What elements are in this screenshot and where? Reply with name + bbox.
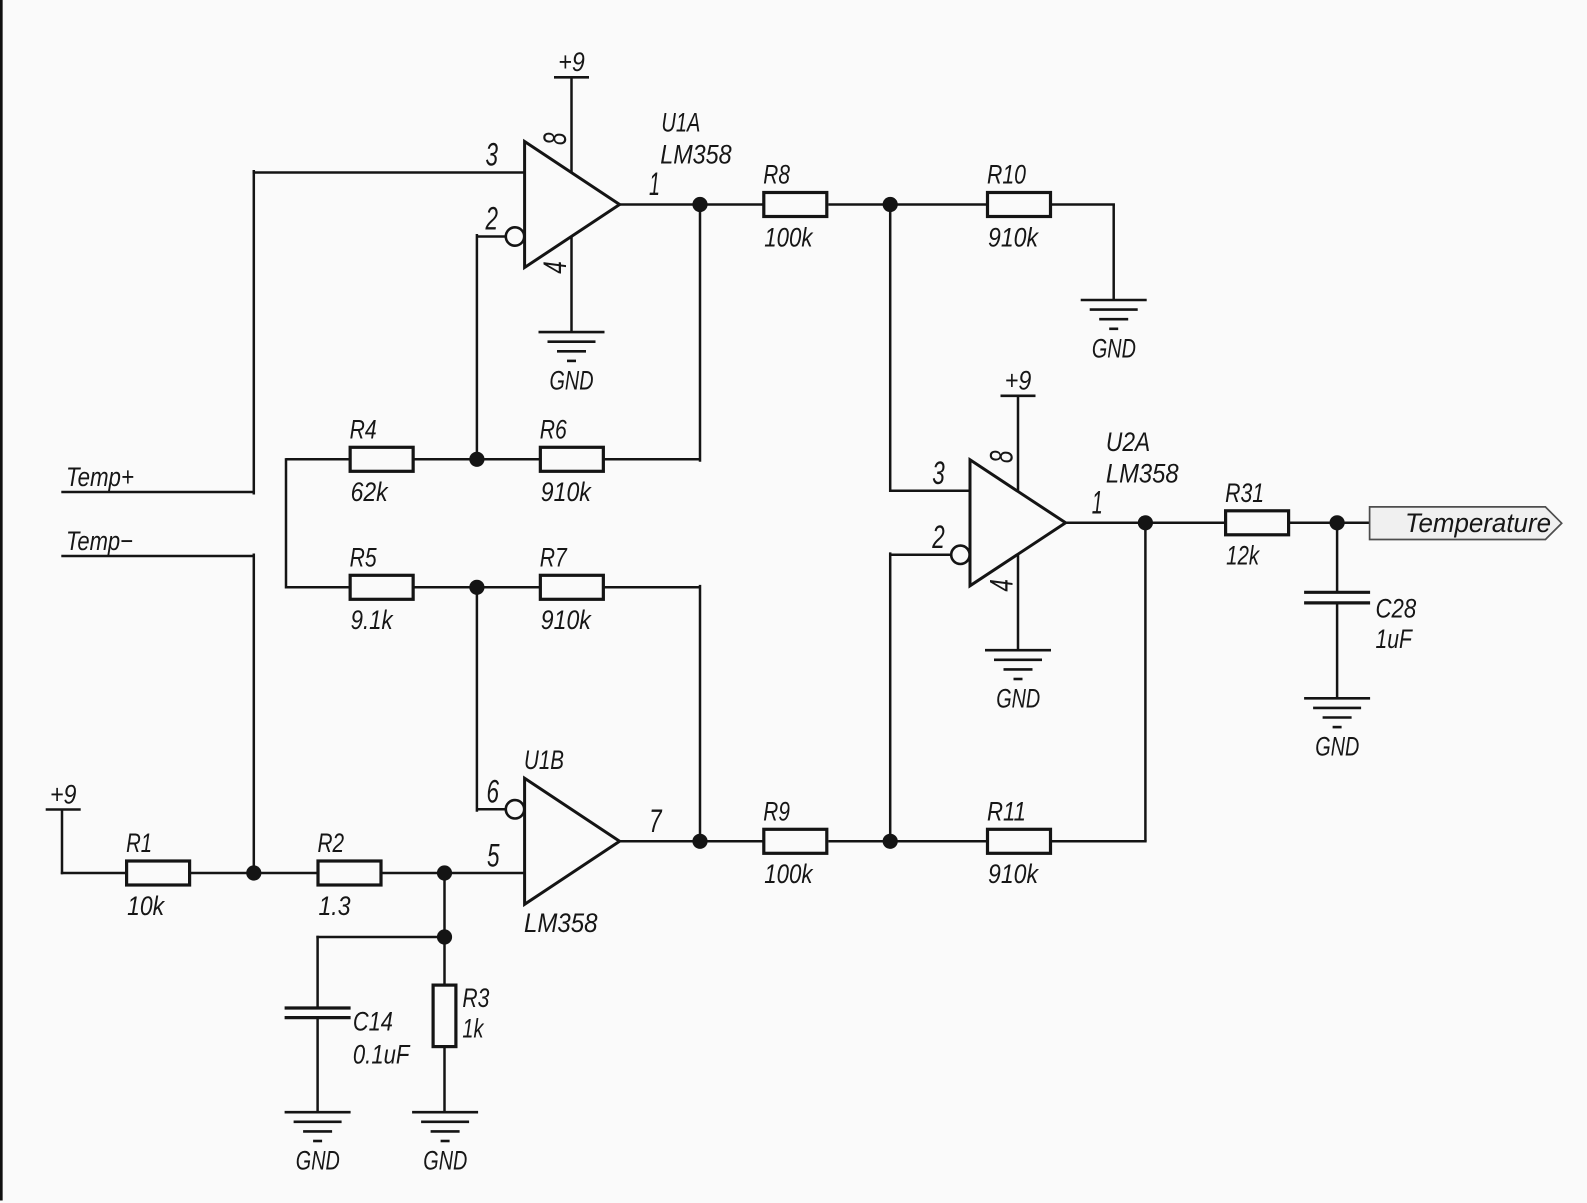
wire R5 left — [286, 586, 349, 589]
ground symbol (U2A pin4) — [985, 650, 1051, 679]
sheet border left edge — [0, 0, 3, 1201]
ground symbol (R3) — [412, 1112, 478, 1141]
junction U1B output / R7 / R9 — [692, 834, 707, 849]
svg-text:100k: 100k — [764, 222, 814, 252]
wire Temp+ vertical to U1A pin3 — [253, 171, 256, 493]
resistor R3 (vertical) — [433, 985, 456, 1047]
wire U1A pin4 ground stub — [570, 237, 573, 333]
svg-text:62k: 62k — [351, 477, 389, 507]
resistor R2 — [318, 861, 381, 885]
svg-text:1.3: 1.3 — [319, 891, 351, 921]
svg-text:C14: C14 — [353, 1007, 393, 1037]
svg-text:GND: GND — [423, 1146, 467, 1176]
wire U2A pin4 ground stub — [1017, 555, 1020, 650]
op-amp U1A body — [506, 142, 620, 268]
svg-text:R7: R7 — [540, 543, 568, 573]
svg-text:910k: 910k — [541, 605, 592, 635]
capacitor C28 — [1304, 592, 1370, 603]
wire Temp- label line — [61, 555, 254, 558]
ground symbol (R10) — [1081, 300, 1147, 329]
resistor R10 — [988, 193, 1051, 217]
svg-text:3: 3 — [486, 137, 499, 173]
wire node to R31 left — [1145, 522, 1226, 525]
wire U1A pin8 power stub — [570, 77, 573, 172]
wire R10 right — [1052, 203, 1114, 206]
svg-text:Temp−: Temp− — [66, 526, 133, 556]
wire node to R9 left — [700, 840, 764, 843]
svg-text:2: 2 — [485, 201, 498, 237]
svg-text:U2A: U2A — [1106, 427, 1150, 457]
wire R3 top lead — [443, 937, 446, 985]
wire R6 vertical up to U1A output node — [699, 205, 702, 461]
junction U1A output / R6 / R8 — [692, 197, 707, 212]
junction R8 / R10 / U2A pin3 — [883, 197, 898, 212]
svg-text:Temperature: Temperature — [1405, 508, 1551, 538]
wire U1A pin2 vertical to R4/R6 node — [476, 235, 479, 459]
svg-text:GND: GND — [296, 1146, 340, 1176]
svg-text:1: 1 — [649, 166, 660, 202]
svg-text:R5: R5 — [350, 543, 377, 573]
wire C28 bottom lead — [1336, 604, 1339, 698]
svg-text:8: 8 — [537, 132, 573, 145]
svg-text:+9: +9 — [558, 47, 585, 77]
svg-text:R2: R2 — [318, 828, 345, 858]
wire U1B output — [620, 840, 700, 843]
op-amp U1B body — [506, 778, 620, 904]
junction R2 / U1B pin5 / C14-R3 branch — [437, 865, 452, 880]
svg-text:R1: R1 — [126, 828, 152, 858]
op-amp U2A body — [951, 460, 1065, 586]
svg-text:12k: 12k — [1226, 541, 1260, 571]
svg-text:U1A: U1A — [661, 108, 700, 138]
svg-text:R8: R8 — [763, 160, 790, 190]
svg-text:Temp+: Temp+ — [66, 462, 134, 492]
wire R4 left — [286, 458, 349, 461]
svg-text:+9: +9 — [50, 779, 77, 809]
wire R8 to R10 node — [829, 203, 987, 206]
wire U2A pin2 vertical to R9/R11 node — [889, 554, 892, 842]
svg-text:U1B: U1B — [524, 745, 564, 775]
wire R10 vertical to GND — [1112, 205, 1115, 301]
junction C14 / R3 — [437, 929, 452, 944]
svg-text:R10: R10 — [987, 160, 1026, 190]
wire R2 to U1B pin5 — [382, 872, 525, 875]
wire R11 vertical up to U2A output node — [1144, 522, 1147, 842]
svg-text:3: 3 — [932, 455, 945, 491]
wire U2A pin8 power stub — [1017, 396, 1020, 491]
svg-text:2: 2 — [932, 519, 945, 555]
wire C14 bottom lead — [316, 1019, 319, 1112]
wire U2A pin3 horizontal — [890, 490, 970, 493]
svg-text:6: 6 — [487, 774, 500, 810]
svg-text:7: 7 — [649, 803, 662, 839]
wire C14 branch horizontal — [318, 936, 445, 939]
wire U1B pin6 horizontal — [477, 808, 506, 811]
wire Temp- vertical to R1/R2 node — [253, 555, 256, 873]
svg-text:910k: 910k — [541, 477, 592, 507]
wire R7 right — [605, 586, 700, 589]
svg-text:R4: R4 — [350, 415, 377, 445]
wire node down from R2 right — [443, 873, 446, 937]
svg-text:100k: 100k — [764, 859, 814, 889]
junction U2A output / R11 / R31 — [1138, 515, 1153, 530]
resistor R8 — [764, 193, 827, 217]
svg-text:R31: R31 — [1225, 478, 1264, 508]
svg-text:LM358: LM358 — [1106, 459, 1179, 489]
svg-text:R11: R11 — [987, 797, 1026, 827]
wire Temp+ label line — [61, 491, 254, 494]
svg-text:4: 4 — [983, 579, 1019, 592]
wire node to R8 left — [700, 203, 764, 206]
wire U1A pin2 horizontal — [477, 235, 506, 238]
capacitor C14 — [285, 1008, 351, 1018]
wire U1B pin6 vertical to R5/R7 node — [476, 587, 479, 810]
svg-text:1: 1 — [1092, 484, 1103, 520]
global label Temperature flag — [1370, 507, 1562, 540]
wire R5 to R7 — [414, 586, 539, 589]
ground symbol (C14) — [285, 1112, 351, 1141]
svg-text:LM358: LM358 — [660, 139, 732, 169]
wire U2A pin3 vertical from R8/R10 node — [889, 205, 892, 491]
junction R1 / R2 / Temp- — [246, 865, 261, 880]
resistor R6 — [540, 447, 603, 471]
svg-text:0.1uF: 0.1uF — [353, 1040, 411, 1070]
resistor R9 — [764, 829, 827, 853]
svg-text:910k: 910k — [988, 222, 1039, 252]
wire U2A pin2 horizontal — [890, 554, 951, 557]
wire R4 to R6 — [414, 458, 539, 461]
power +9 symbol (U2A pin8) — [1001, 394, 1036, 397]
wire R1 to R2 — [190, 872, 317, 875]
svg-text:R9: R9 — [763, 797, 790, 827]
svg-text:R3: R3 — [462, 983, 489, 1013]
ground symbol (C28) — [1304, 698, 1370, 727]
svg-text:LM358: LM358 — [524, 908, 598, 938]
wire C14 top lead — [316, 936, 319, 1007]
resistor R31 — [1226, 511, 1289, 535]
resistor R4 — [350, 447, 413, 471]
svg-text:C28: C28 — [1376, 594, 1417, 624]
power +9 symbol (left, R1 input) — [46, 808, 81, 811]
wire R6 right — [605, 458, 700, 461]
resistor R7 — [540, 575, 603, 599]
wire U1A pin3 input — [253, 171, 525, 174]
svg-text:1uF: 1uF — [1376, 624, 1414, 654]
wire R3 bottom lead — [443, 1047, 446, 1112]
svg-text:GND: GND — [1092, 333, 1136, 363]
svg-text:5: 5 — [487, 838, 500, 874]
junction R4 / R6 / U1A pin2 — [469, 452, 484, 467]
wire node to Temperature flag — [1337, 522, 1370, 525]
wire +9 stub to R1 — [61, 810, 64, 875]
svg-text:GND: GND — [1315, 732, 1359, 762]
svg-text:4: 4 — [537, 261, 573, 274]
svg-text:910k: 910k — [988, 859, 1039, 889]
svg-text:+9: +9 — [1005, 366, 1032, 396]
wire R7 vertical down to U1B output node — [699, 586, 702, 841]
svg-text:GND: GND — [550, 365, 594, 395]
wire U2A output — [1066, 522, 1146, 525]
wire R31 right to node — [1289, 522, 1337, 525]
wire R4/R5 left link vertical — [285, 458, 288, 588]
wire R11 right — [1052, 840, 1146, 843]
svg-text:9.1k: 9.1k — [351, 605, 394, 635]
svg-text:1k: 1k — [462, 1014, 484, 1044]
svg-text:R6: R6 — [540, 415, 567, 445]
wire R9 to R11 node — [829, 840, 987, 843]
wire U1A output — [620, 203, 700, 206]
power +9 symbol (U1A pin8) — [554, 76, 589, 79]
resistor R11 — [988, 829, 1051, 853]
junction R9 / R11 / U2A pin2 — [883, 834, 898, 849]
wire R1 left — [61, 872, 126, 875]
wire C28 top lead — [1336, 522, 1339, 591]
junction R5 / R7 / U1B pin6 — [469, 580, 484, 595]
svg-text:10k: 10k — [127, 891, 165, 921]
resistor R1 — [127, 861, 190, 885]
svg-text:8: 8 — [983, 450, 1019, 463]
ground symbol (U1A pin4) — [539, 332, 605, 361]
resistor R5 — [350, 575, 413, 599]
junction R31 / C28 / Temperature — [1330, 515, 1345, 530]
svg-text:GND: GND — [996, 684, 1040, 714]
